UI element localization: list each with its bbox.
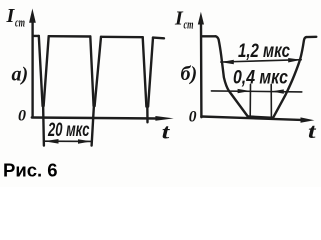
svg-text:I: I: [174, 8, 184, 30]
wire: pulse dip 2 rising edge: [95, 37, 101, 106]
svg-text:ст: ст: [15, 14, 25, 29]
extension line below dip 2: [92, 104, 94, 146]
dimension arrowhead outer-right (0,4 mks) pointing left: [271, 89, 284, 93]
svg-text:t: t: [308, 119, 317, 143]
wire: trapezoid dip right edge: [273, 37, 306, 118]
dimension line 1,2 mks: [221, 60, 301, 62]
svg-text:а): а): [12, 64, 29, 86]
dimension arrowhead right (20 mks): [78, 139, 91, 144]
svg-text:б): б): [181, 63, 198, 85]
wire: pulse dip 2 falling edge: [90, 37, 93, 107]
wire: plot a top level segment 4: [153, 36, 164, 39]
extension tick right (0,4 mks): [270, 84, 272, 117]
extension line below dip 1: [42, 104, 45, 146]
plot b: y-axis: [200, 23, 203, 117]
svg-text:0,4 мкс: 0,4 мкс: [233, 67, 288, 88]
dimension line 0,4 mks: [211, 91, 301, 92]
wire: pulse dip 3 rising edge: [148, 38, 153, 107]
plot a: x-axis: [32, 118, 158, 119]
wire: plot a top level segment 1: [33, 35, 39, 37]
wire: plot b top level left segment: [202, 35, 216, 37]
dimension arrowhead left (20 mks): [44, 139, 58, 144]
plot b: x-axis: [201, 117, 301, 120]
svg-text:Рис. 6: Рис. 6: [3, 160, 58, 181]
svg-text:1,2 мкс: 1,2 мкс: [238, 41, 290, 62]
wire: pulse dip 1 falling edge: [39, 36, 43, 106]
extension tick left (0,4 mks): [249, 84, 251, 116]
svg-text:t: t: [162, 120, 171, 144]
svg-text:0: 0: [18, 107, 26, 124]
wire: plot a top level segment 3: [101, 36, 143, 39]
plot b: y-axis arrowhead: [198, 12, 204, 25]
svg-text:I: I: [6, 5, 16, 27]
wire: trapezoid dip bottom (zero level): [248, 117, 273, 118]
wire: trapezoid dip left edge: [216, 36, 248, 116]
dimension arrowhead left (1,2 mks) pointing left: [221, 60, 234, 65]
svg-text:0: 0: [189, 109, 197, 126]
dimension arrowhead outer-left (0,4 mks) pointing right: [238, 89, 251, 93]
svg-text:20 мкс: 20 мкс: [47, 120, 89, 141]
wire: pulse dip 3 falling edge: [143, 37, 147, 106]
plot b: x-axis arrowhead: [301, 117, 315, 122]
svg-text:ст: ст: [184, 17, 194, 32]
dimension line 20 mks: [44, 140, 91, 142]
plot a: y-axis arrowhead: [29, 9, 36, 23]
plot a: x-axis arrowhead: [155, 116, 173, 121]
wire: plot b top level right segment: [306, 36, 316, 39]
extension line below dip 3: [146, 104, 149, 122]
plot a: y-axis: [31, 21, 33, 117]
dimension arrowhead right (1,2 mks) pointing right: [288, 58, 301, 63]
wire: pulse dip 1 rising edge: [44, 36, 49, 106]
wire: plot a top level segment 2: [49, 35, 91, 38]
